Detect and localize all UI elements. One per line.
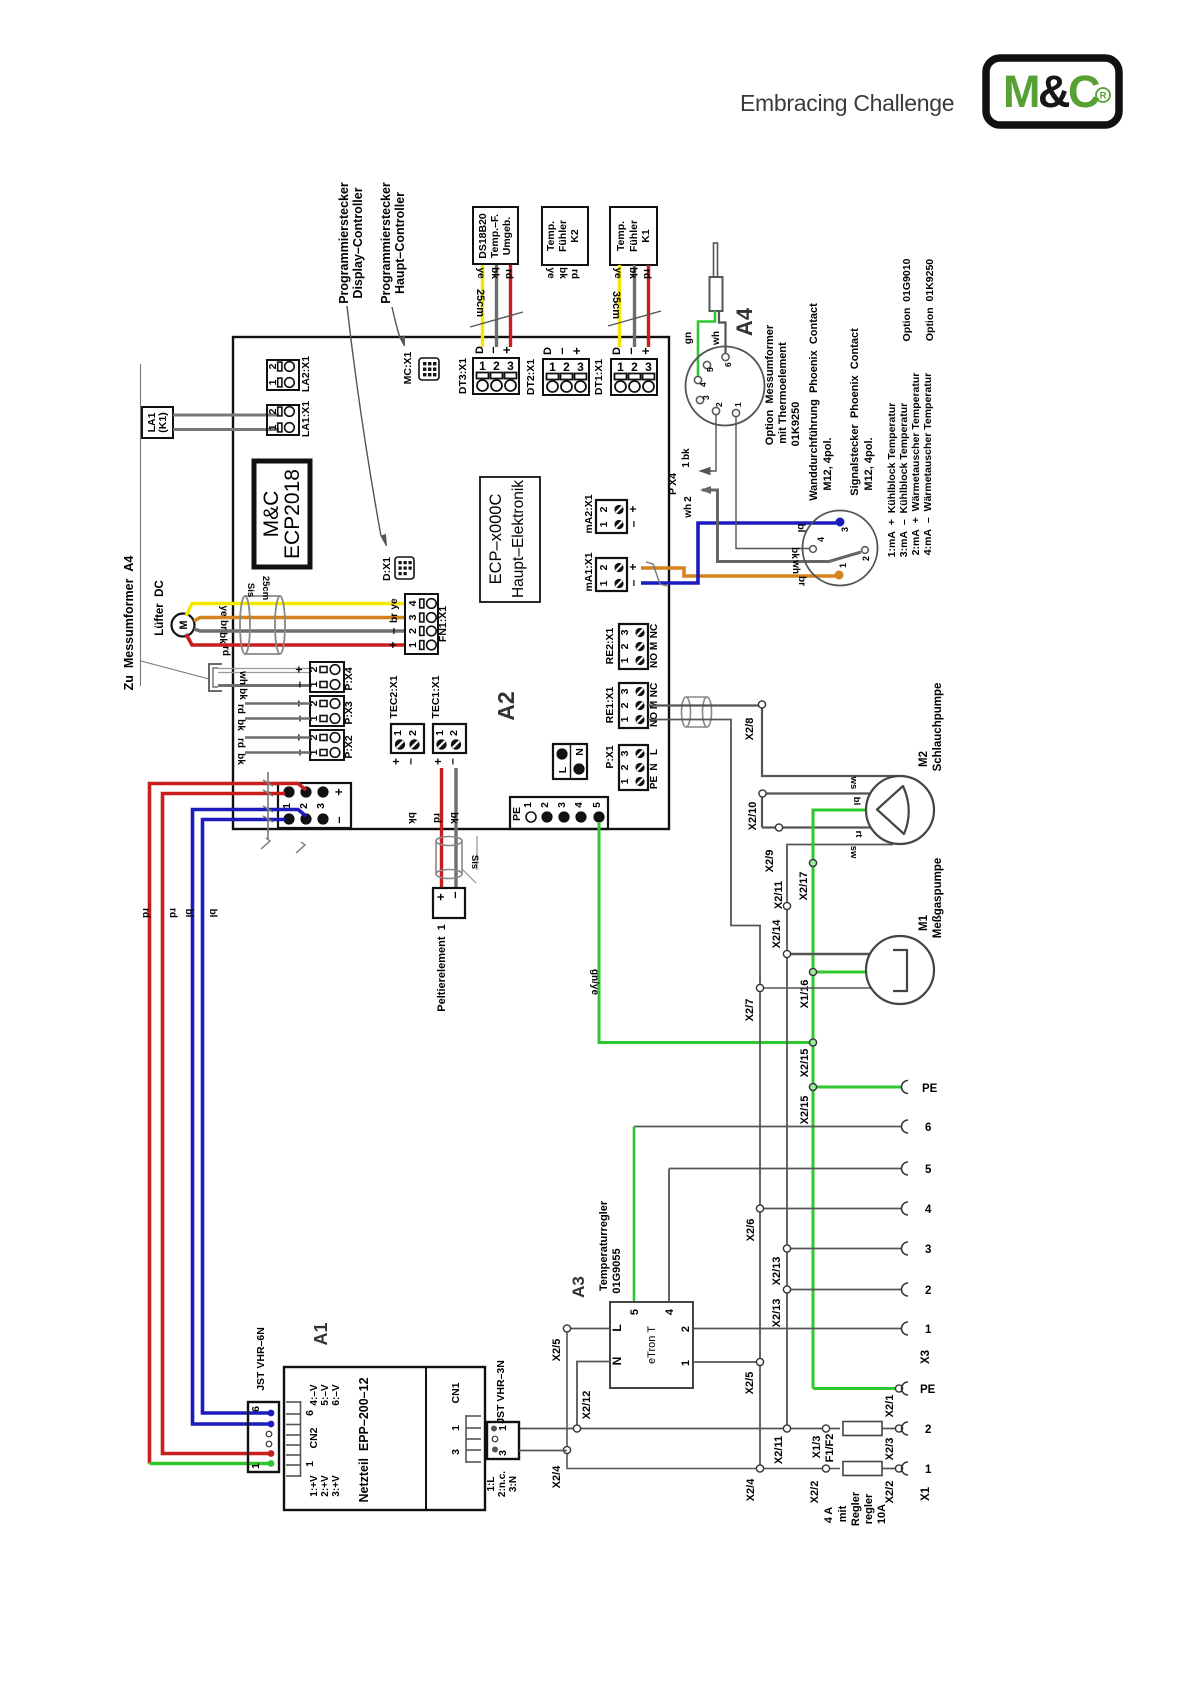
pigtail 5 [669,1162,932,1176]
svg-text:RE2:X1: RE2:X1 [604,627,616,664]
power supply A1 Netzteil EPP-200-12 [284,1367,485,1510]
svg-text:rd: rd [503,269,514,279]
svg-text:mit Thermoelement: mit Thermoelement [777,342,789,444]
wire rd DT1 [647,265,650,347]
svg-text:X2/13: X2/13 [771,1299,783,1328]
svg-text:–: – [403,758,417,765]
wire line N X2/12 to fuse F1 [519,1428,840,1430]
node X2/12 [573,1391,593,1432]
wire bk DT1 [633,265,636,347]
svg-text:4: 4 [816,537,826,542]
pigtail 3 [787,1242,931,1256]
svg-text:Regler: Regler [850,1491,862,1526]
wire bl power outer [193,810,307,1425]
svg-text:1: 1 [925,1464,932,1476]
svg-text:X1/3: X1/3 [811,1436,823,1459]
connector housing wh/bk [209,664,222,691]
svg-text:1: 1 [434,730,446,736]
svg-text:1: 1 [598,521,610,527]
svg-text:Meßgaspumpe: Meßgaspumpe [932,858,944,939]
wire br fan [194,618,405,622]
connector MC:X1 [402,352,439,385]
terminal LA1:X1 [267,401,312,437]
svg-text:4 A: 4 A [823,1507,835,1523]
connector A4 circle [686,347,765,426]
LA1 (K1) relay box [142,407,173,438]
wire gn M2 row [813,810,866,1389]
svg-text:2:mA + Wärmetauscher Tempera: 2:mA + Wärmetauscher Temperatur [910,373,922,556]
svg-text:+: + [292,666,306,673]
svg-text:Netzteil EPP–200–12: Netzteil EPP–200–12 [357,1377,371,1502]
node X2/9 [764,824,783,872]
cable slash DT3 [470,312,523,327]
svg-text:–: – [623,347,638,354]
svg-text:Option 01G9010: Option 01G9010 [901,258,913,341]
sensor box Temp. Fuehler K2 [542,207,588,265]
svg-text:wh: wh [711,331,722,346]
svg-text:2: 2 [540,802,551,808]
svg-text:X2/10: X2/10 [747,802,759,831]
svg-text:1: 1 [450,1425,462,1431]
cable sleeve fan [240,596,285,654]
svg-text:Temp.–F.: Temp.–F. [489,214,501,258]
wire LA1 to LA1:X1 pin1 [173,428,279,431]
fuse F1 [822,1422,931,1437]
svg-text:bk: bk [235,719,246,731]
wire RE1 NO chain [648,720,760,1469]
svg-text:D: D [611,347,623,355]
node X2/5 right [744,1358,764,1394]
slash mark 7a [261,838,270,849]
label M&C ECP2018 nameplate [254,461,310,567]
wire bl mA1- to Signalstecker pin3 [641,523,836,583]
pigtail PE lower gn [813,1382,936,1396]
svg-text:+: + [638,347,653,355]
svg-text:1: 1 [523,802,534,808]
svg-text:–: – [331,816,346,823]
node X2/4 left [551,1446,571,1488]
svg-text:6: 6 [250,1406,262,1412]
wire gn to CN2 pin1 [150,1462,272,1466]
svg-text:1 bk: 1 bk [681,448,692,468]
svg-text:bl: bl [183,909,194,918]
svg-text:1: 1 [392,730,404,736]
wire gn X2/15 PE pigtail [813,1086,902,1089]
svg-text:M: M [649,642,660,650]
svg-text:2: 2 [598,564,610,570]
svg-text:2: 2 [407,628,419,634]
svg-text:X2/2: X2/2 [884,1481,896,1504]
pigtail 4 [760,1202,932,1216]
svg-text:bk: bk [489,267,500,279]
svg-text:5: 5 [629,1309,641,1315]
svg-text:regler: regler [863,1493,875,1524]
svg-text:ECP2018: ECP2018 [281,469,304,559]
svg-text:Temp.: Temp. [545,221,557,251]
node X2/8 [744,701,766,740]
svg-text:1:L: 1:L [486,1477,497,1492]
wire rd DT3 [509,265,512,347]
svg-text:2: 2 [448,730,460,736]
svg-text:ye: ye [545,267,556,279]
svg-text:X2/11: X2/11 [773,1436,785,1464]
svg-text:Lüfter DC: Lüfter DC [154,580,166,636]
svg-text:1: 1 [598,580,610,586]
svg-text:NC: NC [649,683,660,697]
svg-text:3:N: 3:N [508,1476,519,1492]
svg-text:Display–Controller: Display–Controller [351,187,365,298]
terminal mA1:X1 [583,552,640,591]
thermo probe stem [714,243,718,277]
svg-text:–: – [447,891,462,898]
leader diagonal to connector [141,661,209,679]
wire ye DT3 [481,265,484,347]
terminal P:X2 [292,730,355,760]
connector Signalstecker circle [803,511,878,586]
svg-text:CN1: CN1 [450,1382,462,1403]
PE terminal strip [510,797,608,829]
svg-text:M&C: M&C [1003,66,1100,117]
terminal FN1:X1 [405,594,449,654]
pigtail 2 [787,1283,931,1297]
svg-text:JST VHR–3N: JST VHR–3N [495,1360,507,1424]
svg-text:X2/5: X2/5 [744,1372,756,1395]
pigtail 1 eTron2 [693,1322,932,1336]
stub wire rd P:X3 [245,702,310,705]
svg-text:D: D [542,347,554,355]
connector D:X1 [381,557,414,581]
svg-text:3:mA – Kühlblock Temperatur: 3:mA – Kühlblock Temperatur [898,403,910,557]
svg-text:PE: PE [511,807,523,821]
wire eTron N to X2/12 [577,1362,610,1429]
wire bk DT3 [495,265,498,347]
svg-text:2: 2 [598,506,610,512]
svg-text:bk: bk [217,632,228,644]
svg-text:2: 2 [714,402,724,407]
svg-text:PE: PE [920,1384,936,1396]
svg-text:X2/13: X2/13 [771,1257,783,1286]
svg-text:K1: K1 [640,229,652,243]
wire JST3N pin3 to X2/4 [519,1450,567,1452]
svg-text:X2/15: X2/15 [799,1096,811,1125]
wire X2/7 to M1 [760,987,871,989]
node X2/6 [745,1205,764,1241]
svg-text:JST VHR–6N: JST VHR–6N [255,1327,267,1391]
wire A4 pin1 down to Signalstecker pin4 [736,417,809,549]
svg-text:rd: rd [235,704,246,714]
svg-text:X2/2: X2/2 [809,1481,821,1504]
sensor box DS18B20 Temp.-F. Umgeb. [473,207,518,264]
svg-text:N: N [610,1357,624,1366]
svg-text:bk: bk [235,753,246,765]
svg-text:L: L [610,1324,624,1331]
wire RE1 M to X2/8 [648,704,759,706]
svg-text:P:X1: P:X1 [604,745,616,769]
svg-text:+: + [433,893,448,901]
power connector block A2 [278,783,351,828]
svg-text:+: + [431,758,445,765]
regulator eTron T A3 [610,1302,693,1388]
connector JST VHR-6N [248,1402,279,1472]
header CN1 [466,1415,481,1463]
svg-text:01G9055: 01G9055 [611,1248,623,1293]
svg-text:FN1:X1: FN1:X1 [437,606,449,642]
svg-text:6: 6 [304,1410,316,1416]
svg-text:–: – [626,520,640,527]
node X2/13 b [771,1286,791,1327]
leader arrow to D:X1 [347,306,387,546]
svg-text:ECP–x000C: ECP–x000C [487,494,505,585]
svg-text:1:mA + Kühlblock Temperatur: 1:mA + Kühlblock Temperatur [886,403,898,558]
cable sleeve Peltier [436,837,462,879]
svg-text:5: 5 [925,1164,932,1176]
svg-text:L: L [557,766,569,773]
svg-text:+: + [389,758,403,765]
svg-text:A3: A3 [569,1276,588,1298]
svg-text:Temperaturregler: Temperaturregler [598,1200,610,1291]
cable slash DT1 [608,311,661,326]
wire br mA1+ to Signalstecker pin1 [641,568,835,576]
svg-text:ye: ye [389,598,400,610]
node X2/4 right [745,1465,764,1501]
node X2/17 [798,859,817,900]
svg-text:RE1:X1: RE1:X1 [604,686,616,723]
wire X2/14 to M1 [787,953,870,956]
L N jumper block [553,744,587,779]
wire gn probe to A4 pin4 [698,311,715,376]
svg-text:X2/3: X2/3 [884,1438,896,1461]
svg-text:4: 4 [664,1308,676,1315]
slash mark 7b [296,842,305,853]
cable marker mA1 wires [646,562,667,586]
svg-text:Programmierstecker: Programmierstecker [337,182,351,304]
svg-text:2:n.c.: 2:n.c. [497,1471,508,1497]
svg-text:2: 2 [861,556,871,561]
svg-text:Umgeb.: Umgeb. [501,217,513,256]
svg-text:+: + [626,563,640,570]
node X2/11 bottom [773,1425,791,1464]
node X2/10 [747,790,766,830]
wire gn/ye PE5 down [599,822,810,1043]
svg-text:br: br [389,613,400,623]
svg-text:P:X3: P:X3 [343,701,355,725]
svg-text:M2: M2 [918,751,930,767]
leader arrow to MC:X1 [392,307,405,346]
svg-text:eTron T: eTron T [646,1326,658,1364]
svg-text:bl: bl [795,524,806,533]
svg-text:N: N [574,748,586,756]
svg-text:M1: M1 [918,914,930,931]
svg-text:2:+V: 2:+V [320,1475,331,1497]
svg-text:01K9250: 01K9250 [790,402,802,447]
svg-text:3: 3 [450,1449,462,1455]
svg-text:A1: A1 [311,1322,331,1345]
node X1/16 [799,968,817,1008]
wire X2/5 vertical to X2/4 line [567,1331,840,1469]
svg-text:X2/4: X2/4 [551,1465,563,1489]
svg-text:ye: ye [218,605,229,617]
svg-text:bk: bk [237,688,248,700]
svg-text:5: 5 [592,802,603,808]
wire sw row M2 [787,845,893,1429]
svg-text:25cm: 25cm [260,576,271,600]
svg-text:–: – [626,579,640,586]
wire wh probe to A4 pin6 [719,311,726,353]
terminal TEC1:X1 [430,675,466,765]
wire bl row M2 [762,794,871,828]
terminal LA2:X1 [267,356,312,392]
svg-text:TEC1:X1: TEC1:X1 [430,675,442,718]
node X2/5 left [551,1325,571,1361]
svg-text:D:X1: D:X1 [381,557,393,581]
wire ye DT1 [618,265,621,347]
svg-text:F1/F2: F1/F2 [824,1434,836,1463]
svg-text:rd: rd [641,269,652,279]
svg-text:X2/17: X2/17 [798,872,810,901]
node X2/15 gn junction [799,1039,817,1077]
svg-text:TEC2:X1: TEC2:X1 [388,675,400,718]
motor M Luefter [172,614,195,637]
svg-text:Peltierelement 1: Peltierelement 1 [436,924,448,1011]
label Sis leader [462,836,480,883]
svg-text:Programmierstecker: Programmierstecker [379,182,393,304]
svg-text:X2/9: X2/9 [764,850,776,873]
svg-text:X2/5: X2/5 [551,1339,563,1362]
svg-text:1: 1 [733,402,743,407]
pump M2 Schlauchpumpe [866,776,934,844]
svg-text:1: 1 [925,1324,932,1336]
svg-text:sw: sw [848,846,859,859]
svg-text:1: 1 [250,1463,262,1469]
svg-text:N: N [649,763,660,770]
terminal DT2:X1 [525,347,589,395]
svg-text:X2/14: X2/14 [771,919,783,949]
svg-text:A4: A4 [732,307,757,336]
svg-text:Zu Messumformer A4: Zu Messumformer A4 [122,556,136,691]
svg-text:X2/6: X2/6 [745,1219,757,1242]
stub wire bk P:X3 [245,717,310,720]
svg-text:R: R [1100,91,1107,102]
svg-text:4: 4 [574,802,585,808]
svg-text:MC:X1: MC:X1 [402,352,414,385]
svg-text:+: + [569,347,584,355]
svg-text:wh: wh [790,559,801,574]
svg-text:rd: rd [167,908,178,918]
svg-text:Haupt–Controller: Haupt–Controller [393,192,407,294]
wire bl power inner [203,820,286,1414]
pigtail PE upper [902,1081,938,1096]
svg-text:M&C: M&C [260,491,283,538]
svg-text:LA2:X1: LA2:X1 [300,356,312,392]
sensor box Temp. Fuehler K1 [610,207,657,265]
svg-text:25cm: 25cm [474,289,486,317]
svg-text:6: 6 [925,1122,931,1134]
wire gn to eTron5 [633,1127,636,1303]
Peltierelement box [433,888,465,918]
svg-text:DT3:X1: DT3:X1 [457,358,469,394]
wire eTron4 up [668,1169,670,1303]
svg-text:ws: ws [848,776,859,790]
svg-text:mA1:X1: mA1:X1 [583,552,595,591]
svg-text:PE: PE [922,1083,938,1095]
svg-text:rt: rt [853,831,864,839]
svg-text:3: 3 [315,803,327,809]
cable sleeve RE1 [682,697,712,727]
terminal RE1:X1 [604,683,660,728]
wire rt row M2 [762,826,872,828]
svg-text:X1: X1 [920,1486,932,1501]
svg-text:–: – [485,346,500,353]
svg-text:DT2:X1: DT2:X1 [525,359,537,395]
svg-text:–: – [292,681,306,688]
svg-text:br: br [218,620,229,630]
svg-text:bk: bk [789,547,800,559]
svg-text:wh: wh [237,670,248,685]
svg-text:4: 4 [698,382,708,387]
svg-text:6: 6 [723,362,733,367]
terminal DT1:X1 [593,347,657,395]
wire gn X1/16 to M1 [813,971,866,974]
svg-text:Fühler: Fühler [557,220,569,252]
svg-text:3: 3 [497,1450,509,1456]
thermo probe body [710,277,723,311]
svg-text:L: L [649,749,660,755]
svg-text:ye: ye [612,267,623,279]
wire eTron1 to X2/5 node [693,1361,760,1363]
svg-text:A2: A2 [493,691,519,720]
M&C logo [986,58,1119,125]
wire wh2 Signalstecker pin2 arrow [700,486,861,562]
header CN2 [286,1401,301,1477]
svg-text:1: 1 [304,1461,316,1467]
terminal P:X1 [604,745,660,790]
svg-text:K2: K2 [569,229,581,243]
svg-text:ye: ye [475,267,486,279]
svg-text:NO: NO [649,653,660,668]
svg-text:3: 3 [407,614,419,620]
wire X2/8 down to M2 ws [762,708,898,776]
svg-text:X2/8: X2/8 [744,718,756,741]
wire rd power inner [163,794,286,1454]
terminal P:X3 [292,696,355,726]
wire rd fan [186,634,405,645]
svg-text:3: 3 [701,395,711,400]
leader line Zu Messumformer [140,364,142,686]
svg-text:5: 5 [705,367,715,372]
terminal DT3:X1 [457,346,519,394]
wire rd power outer [150,784,307,1464]
svg-text:–: – [386,627,400,634]
svg-text:Fühler: Fühler [628,220,640,252]
terminal RE2:X1 [604,624,660,669]
svg-text:+: + [331,788,346,796]
wire rd TEC1 to Peltier [440,768,443,888]
svg-text:P:X4: P:X4 [343,667,355,691]
svg-text:rd: rd [220,646,231,656]
svg-text:NC: NC [649,624,660,638]
svg-text:DT1:X1: DT1:X1 [593,359,605,395]
svg-text:wh 2: wh 2 [683,496,694,519]
svg-text:1: 1 [497,1425,509,1431]
svg-text:bk: bk [448,812,459,824]
svg-text:bk: bk [557,267,568,279]
svg-text:rd: rd [431,813,442,823]
svg-text:Signalstecker Phoenix Contac: Signalstecker Phoenix Contact [849,328,861,496]
svg-text:X2/15: X2/15 [799,1049,811,1078]
wire bk fan [194,629,405,631]
svg-text:M12, 4pol.: M12, 4pol. [863,437,875,490]
svg-text:P X4: P X4 [667,473,679,495]
